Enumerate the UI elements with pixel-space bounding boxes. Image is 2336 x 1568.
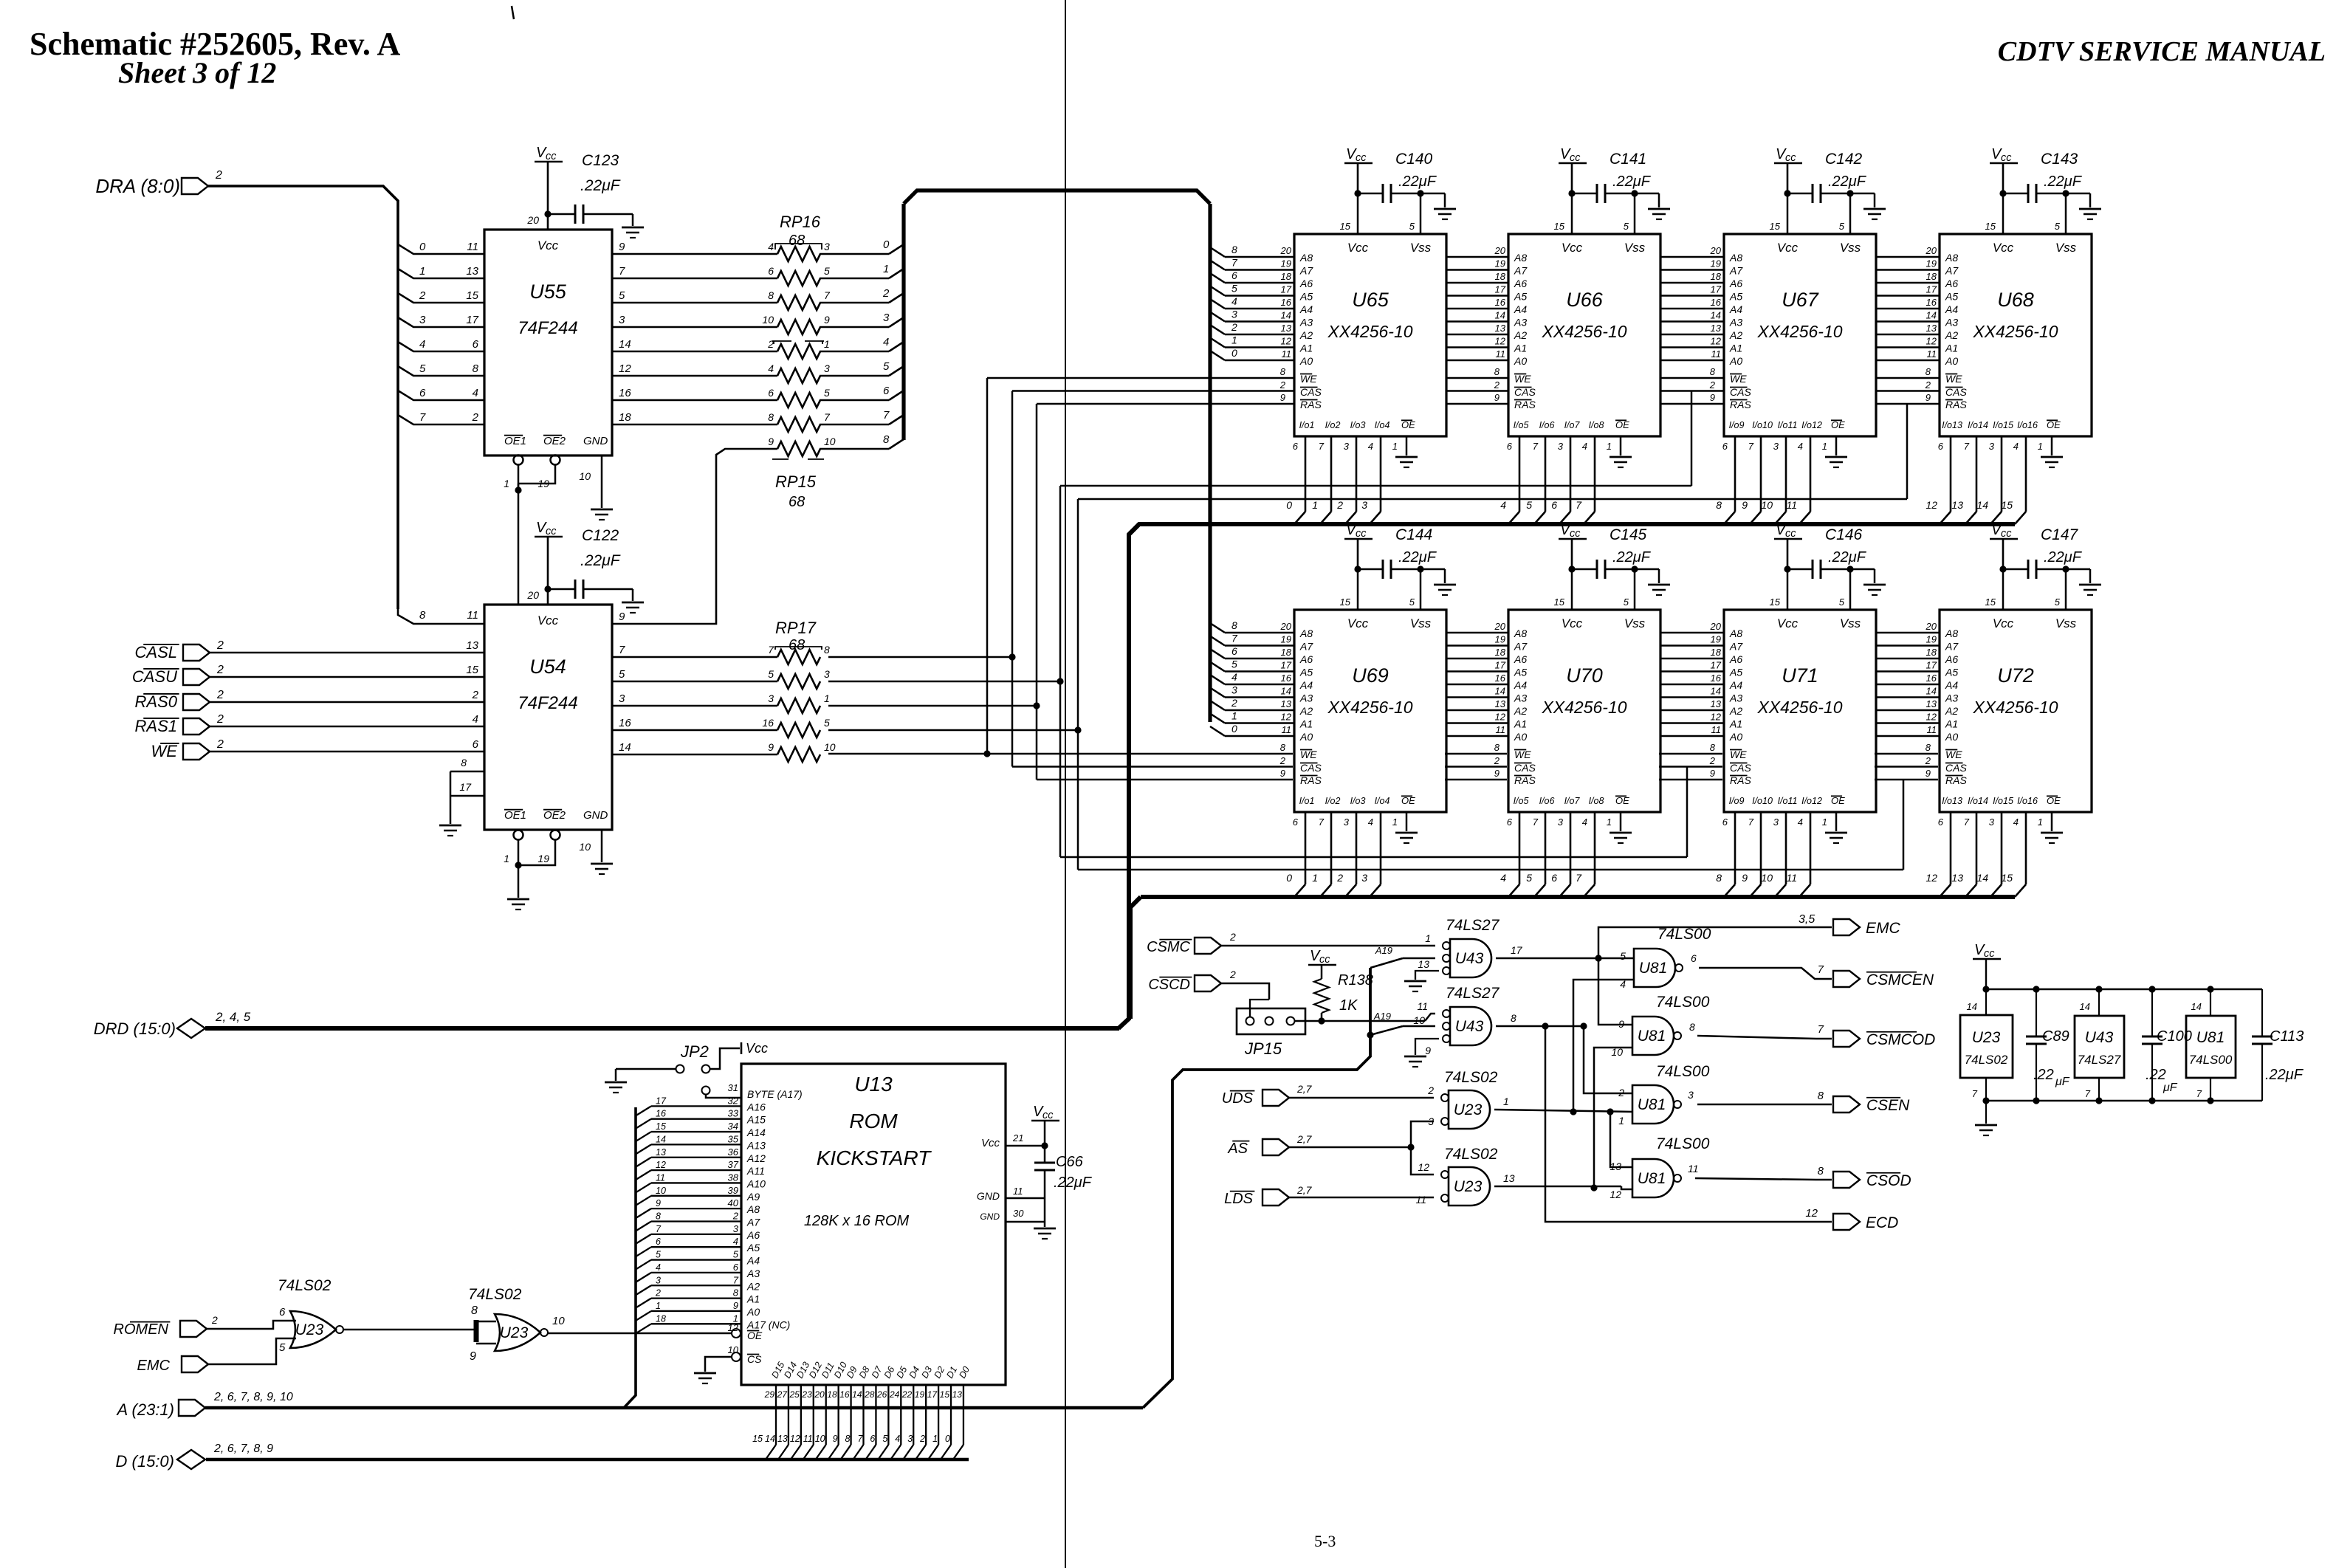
- svg-text:DRD (15:0): DRD (15:0): [94, 1019, 176, 1038]
- svg-text:6: 6: [1691, 952, 1697, 964]
- svg-text:16: 16: [762, 717, 774, 729]
- svg-text:14: 14: [1281, 686, 1291, 697]
- U71 pin stubs top: [1787, 569, 1789, 610]
- svg-text:A3: A3: [1729, 317, 1742, 329]
- svg-text:2: 2: [1427, 1084, 1434, 1096]
- svg-text:8: 8: [824, 644, 830, 656]
- svg-text:5: 5: [882, 1434, 887, 1444]
- svg-text:19: 19: [1281, 258, 1291, 269]
- svg-text:37: 37: [728, 1159, 739, 1170]
- svg-text:17: 17: [1711, 660, 1722, 671]
- svg-text:12: 12: [1711, 712, 1722, 723]
- svg-text:7: 7: [1231, 633, 1238, 644]
- svg-text:6: 6: [768, 387, 774, 399]
- svg-text:OE1: OE1: [504, 809, 526, 822]
- ground for C143: [2089, 193, 2092, 207]
- svg-text:OE: OE: [1615, 795, 1629, 806]
- svg-text:14: 14: [1976, 499, 1988, 511]
- address bus bit branches into DRAM: [1210, 247, 1225, 257]
- svg-text:17: 17: [1495, 660, 1506, 671]
- svg-text:14: 14: [1495, 310, 1505, 321]
- svg-text:CSMCEN: CSMCEN: [1866, 972, 1934, 988]
- svg-text:16: 16: [1281, 673, 1292, 684]
- wire OE tie down to U54: [515, 486, 521, 493]
- svg-text:12: 12: [1495, 336, 1506, 347]
- svg-text:A8: A8: [1514, 627, 1527, 639]
- svg-text:20: 20: [814, 1389, 825, 1400]
- svg-text:4: 4: [883, 336, 889, 348]
- IC U43 74LS27 power box: [2075, 1016, 2124, 1078]
- NOR gate U23 first: [290, 1311, 336, 1348]
- svg-text:μF: μF: [2055, 1076, 2070, 1088]
- svg-text:CSEN: CSEN: [1866, 1097, 1910, 1114]
- ground for C146: [1874, 569, 1876, 583]
- svg-text:20: 20: [1710, 245, 1722, 256]
- wire U81d in13 riser: [1610, 1112, 1632, 1167]
- wire WE riser: [983, 750, 990, 757]
- svg-text:17: 17: [1711, 284, 1722, 295]
- svg-text:I/o15: I/o15: [1993, 420, 2013, 430]
- svg-text:2: 2: [1925, 379, 1931, 391]
- DRAM U65 XX4256-10: [1294, 234, 1446, 436]
- svg-text:18: 18: [1711, 647, 1722, 658]
- svg-text:6: 6: [768, 265, 774, 277]
- svg-text:8: 8: [733, 1287, 739, 1299]
- svg-text:3: 3: [824, 362, 830, 374]
- svg-text:14: 14: [656, 1134, 666, 1144]
- svg-text:GND: GND: [583, 435, 608, 447]
- svg-text:10: 10: [815, 1434, 825, 1444]
- svg-text:8: 8: [1716, 872, 1722, 884]
- svg-text:4: 4: [1500, 499, 1506, 511]
- svg-text:3: 3: [1989, 816, 1995, 828]
- svg-text:7: 7: [824, 289, 831, 301]
- svg-text:2: 2: [655, 1288, 661, 1299]
- DRAM U69 XX4256-10: [1294, 610, 1446, 812]
- svg-text:8: 8: [768, 289, 774, 301]
- svg-text:Vcc: Vcc: [1993, 241, 2014, 255]
- DRD bus left vertical to connector: [1119, 524, 1139, 1028]
- svg-text:Vcc: Vcc: [1777, 616, 1799, 630]
- svg-text:.22μF: .22μF: [1828, 173, 1867, 190]
- svg-text:11: 11: [1013, 1186, 1023, 1197]
- wire U81c out to CSEN: [1697, 1104, 1832, 1106]
- svg-text:10: 10: [1761, 499, 1773, 511]
- svg-text:1: 1: [824, 692, 830, 704]
- wire AS to gates: [1289, 1146, 1411, 1149]
- svg-text:A7: A7: [1299, 265, 1313, 277]
- NAND gate U81 fourth: [1632, 1159, 1674, 1197]
- svg-text:20: 20: [1280, 621, 1292, 632]
- svg-text:15: 15: [1985, 221, 1996, 232]
- svg-text:XX4256-10: XX4256-10: [1756, 698, 1842, 717]
- svg-text:A3: A3: [1299, 317, 1313, 329]
- A bus bit branch: [636, 1132, 651, 1141]
- A bus bit branch: [636, 1158, 651, 1167]
- svg-text:3: 3: [883, 312, 890, 324]
- svg-text:4: 4: [473, 713, 478, 726]
- svg-text:2: 2: [216, 738, 224, 751]
- svg-text:1: 1: [1231, 334, 1237, 346]
- svg-text:I/o10: I/o10: [1752, 796, 1773, 806]
- wire CSCD to JP15: [1221, 983, 1269, 1000]
- svg-text:cc: cc: [1785, 528, 1796, 540]
- svg-text:2: 2: [1494, 755, 1500, 766]
- A bus bit branch: [636, 1170, 651, 1180]
- svg-text:18: 18: [1711, 271, 1722, 282]
- svg-text:3: 3: [1773, 816, 1779, 828]
- svg-text:4: 4: [1798, 441, 1803, 452]
- svg-text:11: 11: [1711, 348, 1722, 360]
- A bus branch to U13 address pins: [624, 1107, 636, 1408]
- ground for C142: [1874, 193, 1876, 207]
- svg-text:17: 17: [1281, 660, 1292, 671]
- address bus vertical from RP16: [901, 204, 905, 440]
- input tie bar: [474, 1320, 479, 1342]
- DRAM U67 XX4256-10: [1724, 234, 1876, 436]
- svg-text:1: 1: [1392, 816, 1398, 828]
- wire CAS row2 distribution: [1012, 766, 1293, 768]
- svg-text:μF: μF: [2162, 1082, 2178, 1094]
- wire RP16 out bit 3 to address bus: [820, 326, 889, 329]
- svg-text:U71: U71: [1782, 664, 1818, 687]
- wire WE row1 distribution: [987, 377, 1294, 379]
- svg-text:Vss: Vss: [2055, 241, 2077, 255]
- svg-text:A4: A4: [1299, 679, 1313, 691]
- I/O drops to DRD bus row 2 chip 2: [1734, 812, 1736, 884]
- svg-text:9: 9: [833, 1434, 838, 1444]
- svg-text:1: 1: [1503, 1096, 1509, 1107]
- wire RP16 out bit 1 to address bus: [820, 278, 889, 280]
- svg-text:XX4256-10: XX4256-10: [1972, 698, 2058, 717]
- svg-text:15: 15: [1340, 221, 1351, 232]
- U70 pin stubs top: [1571, 569, 1573, 610]
- U54 GND pin 10 to ground: [601, 830, 603, 862]
- svg-text:10: 10: [824, 436, 836, 447]
- svg-text:15: 15: [1770, 221, 1781, 232]
- svg-text:3: 3: [656, 1275, 661, 1285]
- svg-text:cc: cc: [1984, 948, 1995, 960]
- svg-text:8: 8: [656, 1211, 661, 1222]
- svg-text:18: 18: [1495, 647, 1506, 658]
- bypass bank top rail: [1986, 988, 2262, 991]
- RP16 common-pin bracket row4: [772, 340, 791, 342]
- svg-text:7: 7: [1964, 441, 1970, 452]
- svg-text:6: 6: [1507, 816, 1513, 828]
- svg-text:A3: A3: [1514, 692, 1527, 704]
- svg-text:5: 5: [1409, 596, 1415, 608]
- svg-text:7: 7: [1319, 816, 1325, 828]
- wire U81d out to CSOD: [1695, 1178, 1832, 1180]
- svg-text:18: 18: [1926, 271, 1937, 282]
- svg-text:1: 1: [419, 265, 425, 278]
- wire JP2 to BYTE pin: [706, 1095, 741, 1098]
- svg-text:6: 6: [1938, 816, 1944, 828]
- svg-text:2: 2: [211, 1314, 218, 1326]
- svg-text:11: 11: [1496, 348, 1506, 360]
- wire RAS split row1 to U68: [1078, 498, 1907, 501]
- svg-text:13: 13: [656, 1147, 666, 1158]
- svg-text:A7: A7: [1514, 265, 1528, 277]
- svg-text:13: 13: [1926, 698, 1937, 709]
- svg-text:U68: U68: [1997, 289, 2034, 311]
- svg-text:I/o13: I/o13: [1942, 796, 1962, 806]
- svg-text:A1: A1: [1729, 343, 1742, 354]
- A bus bit branch: [636, 1234, 651, 1244]
- svg-text:13: 13: [1926, 323, 1937, 334]
- svg-text:GND: GND: [583, 809, 608, 822]
- svg-text:11: 11: [1415, 1194, 1426, 1206]
- svg-text:cc: cc: [1042, 1110, 1054, 1121]
- svg-text:2: 2: [215, 169, 222, 182]
- svg-text:74LS00: 74LS00: [1657, 926, 1711, 943]
- wire U81c in2 from U43b line riser: [1584, 1026, 1632, 1093]
- svg-text:15: 15: [1770, 596, 1781, 608]
- svg-text:2: 2: [472, 689, 479, 701]
- svg-text:CASU: CASU: [132, 667, 177, 686]
- svg-text:A0: A0: [1299, 355, 1313, 367]
- svg-text:22: 22: [901, 1389, 913, 1400]
- svg-text:16: 16: [839, 1389, 850, 1400]
- svg-text:17: 17: [927, 1389, 938, 1400]
- svg-text:I/o3: I/o3: [1350, 420, 1366, 430]
- svg-text:6: 6: [473, 338, 479, 351]
- svg-text:I/o11: I/o11: [1778, 796, 1798, 806]
- capacitor C89 .22uF: [2036, 989, 2037, 1036]
- svg-text:11: 11: [467, 609, 478, 622]
- svg-text:8: 8: [768, 411, 774, 423]
- wire U23c out to U81c: [1494, 1110, 1632, 1112]
- svg-text:U23: U23: [500, 1324, 529, 1341]
- svg-text:15: 15: [1985, 596, 1996, 608]
- svg-text:C144: C144: [1395, 526, 1432, 543]
- resistor RP16 element 0: [777, 247, 820, 261]
- svg-text:74F244: 74F244: [518, 693, 577, 713]
- svg-text:A4: A4: [1945, 679, 1958, 691]
- svg-text:8: 8: [1511, 1012, 1516, 1024]
- svg-text:6: 6: [1507, 441, 1513, 452]
- U43a pin13 ground stub: [1415, 971, 1439, 980]
- svg-text:13: 13: [1281, 323, 1292, 334]
- svg-text:8: 8: [1231, 619, 1237, 631]
- svg-text:I/o9: I/o9: [1729, 420, 1745, 430]
- svg-text:A0: A0: [1514, 355, 1527, 367]
- svg-text:15: 15: [656, 1121, 666, 1132]
- svg-text:7: 7: [1576, 499, 1582, 511]
- svg-text:10: 10: [579, 470, 591, 482]
- svg-text:A5: A5: [1729, 667, 1742, 678]
- wire RAS0 to U54: [210, 701, 484, 704]
- svg-text:1: 1: [504, 478, 509, 489]
- svg-text:5: 5: [824, 265, 830, 277]
- U68 OE pin to ground: [2051, 436, 2053, 455]
- DRD bus row2: [1141, 895, 2015, 899]
- wire WE row2 distribution: [828, 753, 1293, 755]
- address lines between DRAMs: [1660, 632, 1724, 634]
- svg-text:U81: U81: [1638, 1096, 1666, 1113]
- svg-text:A3: A3: [746, 1268, 760, 1279]
- svg-text:11: 11: [1417, 1000, 1428, 1012]
- wire LDS to gate: [1289, 1197, 1434, 1199]
- svg-text:Vcc: Vcc: [537, 238, 559, 252]
- svg-text:2: 2: [1336, 499, 1343, 511]
- IC U81 74LS00 power box: [2186, 1016, 2236, 1078]
- svg-text:RP15: RP15: [775, 472, 817, 491]
- svg-text:9: 9: [470, 1350, 476, 1363]
- svg-text:5: 5: [1231, 659, 1237, 670]
- ground below U54 OE pins: [507, 898, 529, 901]
- svg-text:I/o7: I/o7: [1564, 796, 1581, 806]
- svg-text:1: 1: [824, 338, 830, 350]
- svg-text:RP17: RP17: [775, 619, 817, 637]
- svg-text:8: 8: [1494, 366, 1500, 377]
- svg-text:A6: A6: [1514, 278, 1527, 289]
- svg-text:1: 1: [883, 263, 889, 275]
- A bus bit branch: [636, 1208, 651, 1218]
- svg-text:2: 2: [1925, 755, 1931, 766]
- svg-text:20: 20: [1926, 621, 1937, 632]
- svg-text:16: 16: [1926, 297, 1937, 308]
- svg-text:4: 4: [1231, 295, 1237, 307]
- svg-text:I/o3: I/o3: [1350, 796, 1366, 806]
- svg-text:68: 68: [789, 233, 805, 249]
- svg-text:A0: A0: [746, 1306, 760, 1318]
- svg-text:A7: A7: [1945, 265, 1959, 277]
- NOR gate U23 second: [495, 1314, 540, 1351]
- svg-text:8: 8: [1710, 742, 1716, 753]
- svg-text:I/o6: I/o6: [1539, 796, 1555, 806]
- svg-text:A3: A3: [1729, 692, 1742, 704]
- svg-text:32: 32: [728, 1095, 739, 1106]
- wire CASU riser: [828, 681, 1060, 683]
- svg-text:19: 19: [1926, 634, 1937, 645]
- svg-text:4: 4: [473, 387, 478, 399]
- wire U81a in4 riser from CSEN line: [1573, 980, 1634, 1112]
- svg-text:13: 13: [466, 639, 478, 652]
- svg-text:15: 15: [466, 664, 478, 676]
- RP16 common-pin bracket row0: [775, 244, 822, 250]
- svg-text:3: 3: [1558, 441, 1564, 452]
- svg-text:I/o8: I/o8: [1589, 796, 1604, 806]
- capacitor C123 .22uF: [544, 210, 551, 217]
- svg-text:Sheet 3 of 12: Sheet 3 of 12: [118, 56, 276, 89]
- svg-text:8: 8: [1818, 1090, 1824, 1102]
- svg-text:U23: U23: [1454, 1101, 1483, 1118]
- svg-text:27: 27: [777, 1389, 789, 1400]
- svg-text:RP16: RP16: [780, 213, 821, 231]
- svg-text:13: 13: [1711, 698, 1722, 709]
- IC U23 74LS02 power box: [1960, 1015, 2013, 1078]
- svg-text:LDS: LDS: [1224, 1191, 1254, 1207]
- svg-text:3: 3: [733, 1223, 739, 1234]
- I/O drops to DRD bus row 1 chip 3: [1950, 436, 1952, 512]
- svg-text:XX4256-10: XX4256-10: [1972, 322, 2058, 341]
- svg-text:U23: U23: [295, 1321, 324, 1338]
- svg-text:15: 15: [1554, 596, 1565, 608]
- svg-text:11: 11: [1688, 1163, 1699, 1175]
- svg-text:A5: A5: [1299, 291, 1313, 303]
- svg-text:8: 8: [473, 362, 479, 375]
- svg-text:3: 3: [1231, 309, 1237, 320]
- svg-text:11: 11: [1496, 724, 1506, 735]
- svg-text:A8: A8: [1514, 252, 1527, 264]
- svg-text:Vcc: Vcc: [981, 1137, 1000, 1149]
- svg-text:14: 14: [765, 1434, 775, 1444]
- svg-text:14: 14: [1495, 686, 1505, 697]
- svg-text:20: 20: [1710, 621, 1722, 632]
- svg-text:14: 14: [2191, 1001, 2202, 1012]
- svg-text:I/o7: I/o7: [1564, 420, 1581, 430]
- svg-text:.22μF: .22μF: [580, 177, 621, 194]
- wire OE from gate to U13: [547, 1333, 732, 1335]
- resistor RP16 element 6: [777, 393, 820, 408]
- A bus bit branch: [636, 1260, 651, 1270]
- svg-text:36: 36: [728, 1146, 739, 1158]
- svg-text:3: 3: [1231, 684, 1237, 696]
- svg-text:13: 13: [1711, 323, 1722, 334]
- svg-text:23: 23: [801, 1389, 812, 1400]
- wire UDS to gate: [1289, 1097, 1434, 1099]
- U69 OE pin to ground: [1406, 812, 1408, 831]
- svg-text:A13: A13: [746, 1139, 766, 1151]
- wire ECD riser: [1545, 1026, 1832, 1222]
- svg-text:A1: A1: [1299, 343, 1313, 354]
- svg-text:19: 19: [1495, 258, 1505, 269]
- wire DRA bus: [208, 186, 398, 609]
- svg-text:11: 11: [1927, 724, 1937, 735]
- svg-text:9: 9: [1710, 392, 1715, 403]
- svg-text:A3: A3: [1514, 317, 1527, 329]
- DRA bus bit branches 0-7 into U55: [398, 244, 484, 254]
- svg-text:8: 8: [419, 609, 426, 622]
- svg-text:0: 0: [419, 241, 426, 253]
- svg-text:AS: AS: [1227, 1141, 1248, 1157]
- svg-text:I/o4: I/o4: [1375, 420, 1390, 430]
- svg-text:38: 38: [728, 1172, 739, 1183]
- wire U43a out down to U81b pin 9: [1598, 958, 1632, 1025]
- svg-text:cc: cc: [1319, 954, 1330, 966]
- svg-text:16: 16: [1495, 673, 1506, 684]
- svg-text:I/o2: I/o2: [1325, 420, 1341, 430]
- svg-text:U43: U43: [2085, 1029, 2114, 1046]
- svg-text:I/o13: I/o13: [1942, 420, 1962, 430]
- svg-text:A12: A12: [746, 1152, 766, 1164]
- svg-text:16: 16: [619, 717, 631, 729]
- svg-text:31: 31: [728, 1082, 738, 1093]
- svg-text:12: 12: [1281, 712, 1292, 723]
- svg-text:2: 2: [732, 1211, 739, 1222]
- svg-text:20: 20: [1926, 245, 1937, 256]
- svg-text:A1: A1: [1514, 718, 1527, 730]
- svg-text:2: 2: [1494, 379, 1500, 391]
- svg-text:6: 6: [1551, 872, 1557, 884]
- svg-text:28: 28: [864, 1389, 875, 1400]
- U66 OE pin to ground: [1620, 436, 1622, 455]
- ground for C141: [1658, 193, 1660, 207]
- svg-text:11: 11: [1927, 348, 1937, 360]
- svg-text:1: 1: [1231, 710, 1237, 722]
- svg-text:I/o5: I/o5: [1514, 796, 1529, 806]
- svg-text:14: 14: [619, 741, 631, 754]
- svg-text:6: 6: [883, 385, 890, 397]
- svg-text:RAS1: RAS1: [135, 717, 177, 735]
- wire RP16 out bit 0 to address bus: [820, 253, 889, 255]
- svg-text:3: 3: [619, 314, 625, 326]
- svg-text:A5: A5: [1514, 667, 1527, 678]
- svg-text:A9: A9: [746, 1191, 760, 1203]
- svg-text:JP2: JP2: [680, 1042, 709, 1061]
- svg-text:A7: A7: [1514, 641, 1528, 653]
